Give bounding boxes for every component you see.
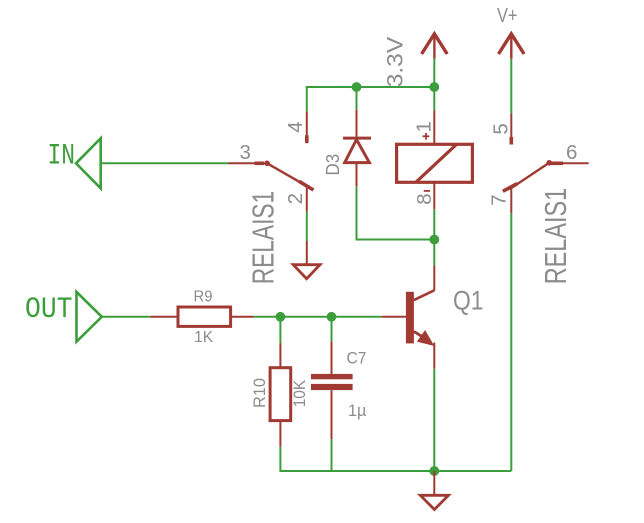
svg-text:3.3V: 3.3V [383, 37, 408, 88]
relay switch2 pivot [546, 160, 552, 166]
wire bottom ground rail [279, 470, 511, 472]
wire relay pin8 green [433, 209, 435, 239]
relay switch2 pin5 stub [510, 113, 512, 144]
svg-text:Q1: Q1 [453, 286, 484, 316]
wire pin4 top vertical [306, 86, 308, 112]
transistor Q1 base stub [382, 316, 406, 318]
transistor Q1 body [406, 290, 434, 346]
svg-text:RELAIS1: RELAIS1 [539, 188, 573, 285]
relay switch2 blade [503, 163, 549, 192]
resistor R10 [270, 344, 291, 447]
node junction dot R10 top [276, 312, 286, 322]
ground GND2 symbol [420, 495, 448, 509]
wire emitter green down [433, 369, 435, 471]
port OUT triangle [77, 292, 102, 342]
supply symbol 3.3V arrow [422, 34, 448, 59]
wire D3 bottom green vertical [356, 186, 358, 239]
wire pin7 down right column [510, 213, 512, 471]
relay switch1 blade [267, 163, 313, 190]
wire pin2 to ground gap [306, 212, 308, 241]
node junction dot ground rail [429, 466, 439, 476]
relay switch2 pin7 stub [510, 189, 512, 213]
svg-text:8: 8 [413, 193, 436, 204]
supply symbol V+ arrow [499, 34, 525, 59]
svg-text:V+: V+ [497, 5, 518, 27]
capacitor C7 [311, 374, 353, 390]
relay switch1 pin2 stub [306, 186, 308, 212]
relay coil minus mark [424, 190, 430, 192]
diode D3 [343, 110, 371, 187]
wire R10 top green [279, 317, 281, 344]
wire top 3.3V rail [306, 86, 435, 88]
relay coil body [397, 144, 473, 182]
wire 3.3V junction to relay pin1 [433, 87, 435, 111]
relay coil plus mark [423, 133, 430, 140]
svg-text:IN: IN [48, 139, 76, 173]
relay switch1 pivot [264, 161, 270, 167]
transistor Q1 collector stub [433, 266, 435, 291]
wire 3.3V shaft green [433, 59, 435, 87]
relay switch1 pin4 stub [306, 112, 308, 144]
node junction dot collector [429, 235, 439, 245]
wire D3 to collector node horizontal [356, 239, 435, 241]
svg-text:R9: R9 [194, 288, 213, 305]
svg-text:R10: R10 [250, 378, 269, 408]
node junction dot C7 top [327, 312, 337, 322]
svg-text:5: 5 [490, 123, 513, 134]
node junction dot 3.3V relay pin1 [429, 82, 439, 92]
svg-text:OUT: OUT [25, 293, 73, 327]
relay coil pin8 stub [433, 183, 435, 210]
ground GND1 symbol [293, 265, 320, 279]
ground GND1 pin [306, 241, 308, 265]
wire collector node down [433, 240, 435, 266]
svg-text:D3: D3 [323, 154, 343, 176]
svg-text:1K: 1K [194, 329, 213, 346]
wire OUT to R9 [102, 316, 151, 318]
wire D3 top green [356, 87, 358, 110]
svg-text:7: 7 [488, 194, 511, 205]
wire R9 to base run [254, 316, 382, 318]
resistor R9 [150, 307, 253, 326]
wire C7 top green [331, 317, 333, 342]
svg-text:1µ: 1µ [348, 401, 367, 420]
wire C7 bottom green [331, 439, 333, 471]
svg-text:6: 6 [566, 141, 577, 164]
svg-text:3: 3 [240, 141, 251, 164]
capacitor C7 stubs [331, 342, 333, 439]
relay switch1 pin3 stub [228, 162, 264, 164]
svg-text:4: 4 [284, 121, 307, 132]
transistor Q1 emitter stub [433, 343, 435, 369]
svg-text:2: 2 [284, 193, 307, 204]
relay switch2 pin6 stub [549, 162, 589, 164]
wire R10 bottom green [279, 447, 281, 471]
svg-text:1: 1 [413, 121, 436, 132]
relay coil K1 pin1 stub [433, 111, 435, 145]
svg-text:10K: 10K [290, 379, 309, 407]
svg-text:RELAIS1: RELAIS1 [246, 191, 280, 285]
port IN triangle [76, 138, 101, 188]
node junction dot D3 top [352, 82, 362, 92]
svg-text:C7: C7 [347, 348, 367, 367]
ground GND2 pin [433, 471, 435, 495]
wire IN net horizontal [101, 162, 228, 164]
wire V+ shaft green [510, 59, 512, 114]
